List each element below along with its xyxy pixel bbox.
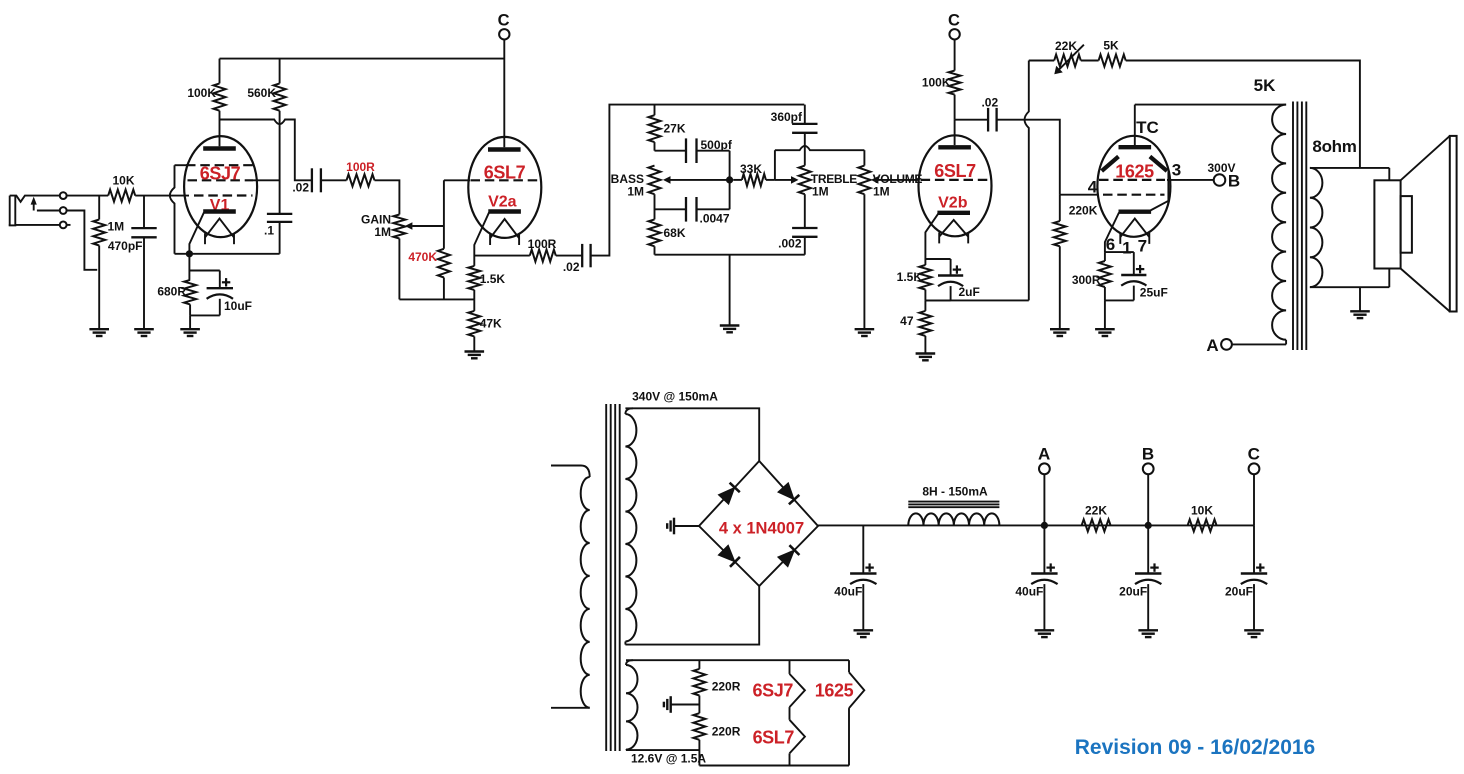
- GAIN wiper arrow: [405, 222, 444, 230]
- node B dot: [1145, 522, 1152, 529]
- wire V1 plate to coupling cap with hop over 560K: [220, 120, 312, 181]
- heater load 6SL7 chevron: [790, 720, 805, 766]
- resistor 1.5K (V2a cathode): [468, 266, 480, 300]
- wire B+ rail: [818, 524, 1254, 526]
- V1 heater: [205, 219, 234, 245]
- resistor 22K PSU: [1082, 519, 1111, 531]
- label 6SJ7 red: [200, 163, 241, 183]
- capacitor .002: [792, 194, 817, 255]
- label TC: [1136, 118, 1159, 137]
- wire V2a output tap: [474, 255, 530, 257]
- resistor 10K PSU: [1188, 519, 1217, 531]
- svg-text:4: 4: [1088, 178, 1098, 197]
- label .02 V2b: [981, 96, 998, 110]
- wire grid 1625: [1060, 194, 1099, 196]
- svg-text:TC: TC: [1136, 118, 1159, 137]
- label 10K PSU: [1191, 504, 1213, 518]
- VOLUME bottom to ground: [863, 194, 865, 329]
- ground speaker: [1350, 311, 1370, 318]
- wire ring return: [37, 211, 97, 270]
- svg-text:1M: 1M: [374, 225, 391, 239]
- wire HV top to bridge: [625, 408, 759, 461]
- resistor 300R (1625 cathode): [1099, 252, 1111, 300]
- node A dot: [1041, 522, 1048, 529]
- tube 1625 envelope: [1097, 136, 1170, 237]
- svg-text:A: A: [1038, 445, 1050, 464]
- label V2b red: [938, 195, 968, 212]
- OT primary coil: [1272, 105, 1286, 345]
- V2a heater: [490, 219, 519, 245]
- wire secondary bottom: [1310, 269, 1389, 288]
- label pin 4: [1088, 178, 1098, 197]
- jack sleeve contact circle: [60, 222, 67, 229]
- svg-text:2uF: 2uF: [959, 285, 980, 299]
- 1625 grid dashed: [1103, 194, 1165, 196]
- label 100K: [187, 86, 216, 100]
- svg-text:C: C: [498, 12, 510, 30]
- svg-text:.1: .1: [264, 224, 274, 238]
- wire tip to 10K: [67, 195, 109, 197]
- capacitor 10uF (cathode bypass): [189, 271, 233, 316]
- PT primary stub bottom: [551, 707, 590, 709]
- svg-text:220R: 220R: [712, 725, 741, 739]
- diode D4 bridge bottom-right: [778, 545, 800, 567]
- V2b cathode bar: [937, 211, 970, 215]
- capacitor .0047: [655, 180, 730, 222]
- wire OT primary bottom: [1232, 343, 1286, 345]
- label 1M: [108, 220, 125, 234]
- label 360pf: [771, 110, 803, 124]
- ground under 470pF: [134, 329, 154, 336]
- label pin 3: [1172, 161, 1181, 180]
- 1625 cathode lead diagonal: [1105, 213, 1119, 253]
- V1 cathode rail: [175, 253, 280, 255]
- GAIN pot bottom lead: [398, 239, 400, 300]
- label 4 x 1N4007 red: [719, 520, 804, 538]
- 1625 plate bar: [1119, 145, 1152, 149]
- 1625 screen dashed: [1099, 179, 1165, 181]
- speaker ground tap: [1359, 287, 1361, 311]
- svg-text:340V @ 150mA: 340V @ 150mA: [632, 390, 718, 404]
- svg-text:5K: 5K: [1103, 39, 1119, 53]
- label 220R upper: [712, 680, 741, 694]
- label pin 7: [1138, 237, 1147, 256]
- jack ring contact circle: [60, 207, 67, 214]
- svg-text:40uF: 40uF: [834, 585, 862, 599]
- label .002: [778, 237, 802, 251]
- svg-text:10K: 10K: [1191, 504, 1213, 518]
- label 560K: [247, 86, 276, 100]
- heater load 1625 chevron: [849, 660, 864, 765]
- ground under VOLUME: [855, 329, 875, 336]
- diode D1 bridge top-left: [718, 483, 739, 505]
- label 6SJ7 heater red: [753, 681, 794, 701]
- wire .02 to 100R: [321, 179, 347, 181]
- wire TC rail: [1135, 104, 1286, 106]
- resistor 100R (grid stopper V2a): [347, 174, 375, 186]
- PT heater coil: [626, 660, 638, 750]
- label 1.5K V2a: [480, 272, 506, 286]
- wire HV bottom to bridge: [625, 586, 759, 645]
- potentiometer GAIN 1M: [393, 215, 405, 239]
- tube V2b 6SL7 envelope: [919, 135, 992, 236]
- label V2a red: [488, 194, 517, 211]
- V1 cathode lead diagonal: [189, 212, 204, 254]
- capacitor 470pF: [131, 196, 156, 329]
- label BASS 1M: [627, 185, 644, 199]
- svg-text:6: 6: [1106, 235, 1115, 254]
- label pin 1: [1122, 239, 1131, 258]
- svg-text:.02: .02: [292, 180, 309, 194]
- capacitor .1 (screen bypass): [267, 214, 292, 254]
- resistor 220K (1625 grid leak): [1054, 195, 1066, 329]
- 1625 cathode bar: [1119, 209, 1152, 213]
- svg-text:C: C: [1248, 445, 1260, 464]
- resistor 560K (screen dropper): [274, 59, 286, 214]
- svg-text:1M: 1M: [108, 220, 125, 234]
- label 1625 red: [1115, 162, 1154, 182]
- 1625 beam plate right: [1150, 157, 1167, 172]
- svg-text:1625: 1625: [1115, 162, 1154, 182]
- wire heater top rail: [626, 659, 849, 661]
- svg-text:V2a: V2a: [488, 194, 517, 211]
- svg-text:7: 7: [1138, 237, 1147, 256]
- resistor 100K (V1 plate load): [214, 59, 226, 120]
- label 8H - 150mA: [922, 484, 988, 498]
- svg-text:40uF: 40uF: [1015, 585, 1043, 599]
- svg-text:A: A: [1206, 336, 1218, 355]
- 1625 heater: [1120, 219, 1149, 244]
- svg-text:100K: 100K: [187, 86, 216, 100]
- svg-text:10uF: 10uF: [224, 299, 252, 313]
- V1 plate bar: [203, 146, 236, 150]
- wire cathode return rail: [399, 298, 474, 300]
- resistor 33K: [733, 174, 766, 186]
- resistor 10K (grid stopper): [108, 190, 135, 202]
- svg-text:33K: 33K: [740, 162, 762, 176]
- svg-text:360pf: 360pf: [771, 110, 803, 124]
- svg-text:5K: 5K: [1254, 76, 1276, 95]
- svg-text:8H - 150mA: 8H - 150mA: [922, 484, 988, 498]
- wire 100R to .02: [556, 255, 582, 257]
- label 22K NFB: [1055, 39, 1077, 53]
- label 300R: [1072, 273, 1101, 287]
- ground bridge: [667, 518, 674, 535]
- V1 plate lead: [219, 120, 221, 147]
- label C PSU: [1248, 445, 1260, 464]
- capacitor 25uF (1625 cathode bypass): [1105, 252, 1147, 300]
- heater ground stem: [671, 704, 700, 706]
- tube V2a 6SL7 envelope: [468, 137, 541, 238]
- resistor 680R (V1 cathode): [184, 254, 196, 316]
- 1625 top cap lead: [1134, 105, 1136, 145]
- PT HV secondary coil: [625, 408, 636, 644]
- svg-text:47K: 47K: [480, 317, 502, 331]
- potentiometer TREBLE 1M: [799, 166, 811, 195]
- potentiometer 22K (NFB): [1054, 55, 1081, 67]
- label VOLUME: [873, 172, 923, 186]
- label 25uF: [1140, 286, 1168, 300]
- label 68K: [664, 226, 686, 240]
- wire tone bottom rail: [655, 254, 805, 256]
- 22K arrow: [1054, 45, 1084, 75]
- resistor 68K: [649, 194, 661, 255]
- svg-text:.02: .02: [563, 260, 580, 274]
- label A OT: [1206, 336, 1218, 355]
- svg-text:20uF: 20uF: [1225, 585, 1253, 599]
- svg-text:680R: 680R: [157, 285, 186, 299]
- label 5K OT: [1254, 76, 1276, 95]
- ground 20uF C: [1244, 630, 1264, 637]
- bridge ground stem: [674, 525, 699, 527]
- capacitor .02 tone input: [582, 244, 590, 267]
- potentiometer VOLUME 1M: [858, 150, 870, 194]
- label 40uF reservoir: [834, 585, 862, 599]
- label B: [1228, 172, 1240, 191]
- label 220K: [1069, 204, 1098, 218]
- terminal C PSU: [1249, 463, 1260, 525]
- diode D3 bridge bottom-left: [718, 545, 740, 567]
- ground tone stack: [720, 326, 740, 333]
- resistor 220R lower: [693, 713, 705, 765]
- svg-text:B: B: [1228, 172, 1240, 191]
- jack tip contact circle: [60, 192, 67, 199]
- V2b plate lead: [954, 120, 956, 145]
- svg-text:Revision 09 - 16/02/2016: Revision 09 - 16/02/2016: [1075, 736, 1316, 759]
- V2a plate bar: [488, 147, 521, 151]
- svg-text:68K: 68K: [664, 226, 686, 240]
- capacitor 360pf: [792, 105, 817, 166]
- svg-text:3: 3: [1172, 161, 1181, 180]
- V2a plate lead from C: [503, 40, 505, 148]
- resistor 220R upper: [693, 660, 705, 713]
- label 10uF: [224, 299, 252, 313]
- label C V2b: [948, 12, 960, 30]
- label Revision 09 blue: [1075, 736, 1316, 759]
- ground under 1M: [89, 329, 109, 336]
- svg-text:.0047: .0047: [700, 212, 730, 226]
- svg-text:6SJ7: 6SJ7: [753, 681, 794, 701]
- label VOLUME 1M: [873, 185, 890, 199]
- label 500pf: [701, 138, 733, 152]
- label BASS: [611, 172, 644, 186]
- capacitor 20uF node B: [1135, 525, 1161, 630]
- resistor 47K: [468, 299, 480, 351]
- svg-text:8ohm: 8ohm: [1312, 137, 1356, 156]
- svg-text:220K: 220K: [1069, 204, 1098, 218]
- svg-text:1M: 1M: [627, 185, 644, 199]
- OT core: [1293, 102, 1306, 351]
- ground under 47: [916, 354, 936, 361]
- wire 33K to treble wiper: [766, 179, 792, 181]
- wire sleeve stub: [15, 224, 70, 226]
- bridge rectifier diamond: [699, 461, 818, 586]
- V2b heater: [939, 220, 968, 243]
- choke 8H core lines: [908, 502, 999, 508]
- svg-text:6SL7: 6SL7: [484, 162, 526, 182]
- wire secondary top: [1310, 168, 1389, 180]
- label 8ohm: [1312, 137, 1356, 156]
- svg-text:100K: 100K: [922, 76, 951, 90]
- svg-text:.02: .02: [981, 96, 998, 110]
- label 47: [900, 314, 914, 328]
- svg-text:4 x 1N4007: 4 x 1N4007: [719, 520, 804, 538]
- label 100R tone: [528, 237, 557, 251]
- speaker cone: [1401, 136, 1457, 312]
- label 22K PSU: [1085, 504, 1107, 518]
- svg-text:300R: 300R: [1072, 273, 1101, 287]
- terminal A PSU: [1039, 463, 1050, 525]
- capacitor .02 coupling V1: [312, 168, 321, 192]
- label 470K red: [408, 250, 437, 264]
- label 340V @ 150mA: [632, 390, 718, 404]
- label B PSU: [1142, 445, 1154, 464]
- resistor 100K (V2b plate load): [949, 40, 961, 120]
- label 40uF A: [1015, 585, 1043, 599]
- wire heater bottom stub: [626, 749, 699, 751]
- V1 suppressor grid dashed: [175, 164, 254, 166]
- V2b cathode lead diagonal: [925, 214, 938, 264]
- node tone junction dot: [726, 176, 733, 183]
- svg-text:12.6V @ 1.5A: 12.6V @ 1.5A: [631, 752, 706, 766]
- svg-text:500pf: 500pf: [701, 138, 733, 152]
- label 300V: [1207, 161, 1235, 175]
- wire 5K to speaker tap: [1126, 61, 1360, 168]
- V2a cathode bar: [488, 209, 521, 213]
- terminal B PSU: [1143, 463, 1154, 525]
- svg-text:6SL7: 6SL7: [753, 728, 795, 748]
- V1 screen grid dashed: [188, 179, 254, 181]
- label 1625 heater red: [815, 681, 854, 701]
- wire .02 to tone stack: [591, 105, 805, 256]
- svg-text:27K: 27K: [664, 122, 686, 136]
- V1 screen lead to 560K: [253, 179, 280, 181]
- svg-text:1: 1: [1122, 239, 1131, 258]
- V2b plate bar: [938, 145, 971, 149]
- svg-text:V2b: V2b: [938, 195, 968, 212]
- label 20uF C: [1225, 585, 1253, 599]
- label A PSU: [1038, 445, 1050, 464]
- OT secondary coil: [1310, 168, 1323, 287]
- label 10K: [112, 174, 134, 188]
- label pin 6: [1106, 235, 1115, 254]
- diode D2 bridge top-right: [778, 483, 799, 505]
- label 220R lower: [712, 725, 741, 739]
- capacitor 500pf: [655, 138, 730, 180]
- label GAIN: [361, 213, 391, 227]
- ground under 220K: [1050, 329, 1070, 336]
- svg-text:1M: 1M: [812, 185, 829, 199]
- svg-text:20uF: 20uF: [1119, 585, 1147, 599]
- label .1: [264, 224, 274, 238]
- 1625 beam to cathode link: [1150, 171, 1168, 210]
- svg-text:6SL7: 6SL7: [934, 161, 976, 181]
- svg-text:100R: 100R: [346, 160, 375, 174]
- capacitor 40uF node A: [1031, 525, 1057, 630]
- label TREBLE: [811, 172, 857, 186]
- label .0047: [700, 212, 730, 226]
- resistor 5K NFB: [1099, 55, 1126, 67]
- label .02 tone: [563, 260, 580, 274]
- svg-text:1625: 1625: [815, 681, 854, 701]
- label 47K: [480, 317, 502, 331]
- V2a cathode lead diagonal: [474, 212, 489, 266]
- wire NFB top corner: [1029, 60, 1054, 62]
- resistor 1.5K (V2b cathode): [919, 264, 931, 301]
- capacitor .02 coupling V2b: [988, 108, 997, 132]
- label 100R red: [346, 160, 375, 174]
- label GAIN 1M: [374, 225, 391, 239]
- terminal C (V2a B+): [499, 29, 509, 39]
- ground 20uF B: [1138, 630, 1158, 637]
- svg-text:100R: 100R: [528, 237, 557, 251]
- svg-text:220R: 220R: [712, 680, 741, 694]
- resistor 27K: [649, 105, 661, 151]
- wire 10K to V1 grid: [135, 195, 189, 197]
- svg-text:25uF: 25uF: [1140, 286, 1168, 300]
- svg-text:22K: 22K: [1055, 39, 1077, 53]
- V1 control grid dashed: [194, 194, 253, 196]
- label C top: [498, 12, 510, 30]
- svg-text:470K: 470K: [408, 250, 437, 264]
- V2b grid dashed: [921, 179, 990, 181]
- svg-text:560K: 560K: [247, 86, 276, 100]
- svg-text:B: B: [1142, 445, 1154, 464]
- label TREBLE 1M: [812, 185, 829, 199]
- svg-text:1M: 1M: [873, 185, 890, 199]
- label 100K V2b: [922, 76, 951, 90]
- inductor choke 8H-150mA: [908, 513, 999, 525]
- wire tone ground drop: [729, 255, 731, 326]
- PT core: [606, 404, 620, 751]
- capacitor 2uF (V2b cathode bypass): [925, 259, 963, 300]
- svg-text:47: 47: [900, 314, 914, 328]
- svg-text:1.5K: 1.5K: [897, 270, 923, 284]
- svg-text:.002: .002: [778, 237, 802, 251]
- label 680R: [157, 285, 186, 299]
- V1 suppressor drop wire with hop: [170, 165, 175, 254]
- wire to terminal B: [1167, 179, 1214, 181]
- PT primary coil: [581, 477, 590, 708]
- resistor 1M (input load): [93, 196, 105, 329]
- svg-text:470pF: 470pF: [108, 239, 143, 253]
- wire B+ top rail V1: [220, 58, 505, 60]
- VOLUME wiper arrow: [871, 176, 919, 184]
- TREBLE wiper arrow: [775, 150, 799, 184]
- wire V2b plate junction to .02: [955, 119, 989, 121]
- wire .02 to 1625 grid: [997, 120, 1060, 195]
- label 2uF: [959, 285, 980, 299]
- label 470pF: [108, 239, 143, 253]
- label 12.6V @ 1.5A: [631, 752, 706, 766]
- svg-text:C: C: [948, 12, 960, 30]
- ground heater center tap: [664, 696, 671, 713]
- ground under 47K: [465, 352, 485, 359]
- resistor 470K (grid leak): [438, 180, 450, 299]
- label 6SL7 red V2a: [484, 162, 526, 182]
- svg-text:1.5K: 1.5K: [480, 272, 506, 286]
- wire 100R to GAIN pot: [375, 180, 400, 214]
- ground under 680R: [180, 315, 200, 336]
- label 27K: [664, 122, 686, 136]
- terminal B: [1214, 174, 1226, 186]
- 1625 beam plate left: [1102, 157, 1119, 172]
- BASS wiper arrow: [663, 176, 730, 184]
- wire heater bottom rail: [699, 765, 849, 767]
- label 6SL7 heater red: [753, 728, 795, 748]
- label .02: [292, 180, 309, 194]
- svg-text:22K: 22K: [1085, 504, 1107, 518]
